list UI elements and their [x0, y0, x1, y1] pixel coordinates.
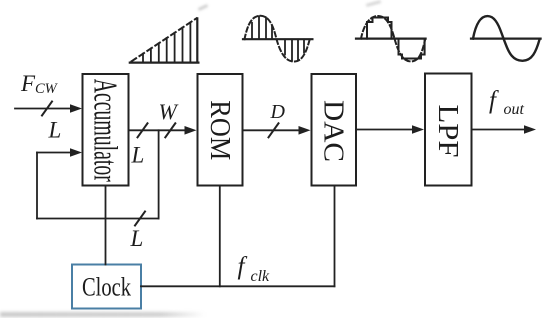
wire: feedback input arrow	[37, 152, 72, 154]
svg-text:L: L	[48, 118, 62, 143]
bus slash W on output	[165, 123, 175, 137]
wire: accumulator clock vertical	[105, 186, 107, 265]
wire: feedback bottom horizontal	[37, 218, 159, 220]
wire: feedback left vertical	[36, 153, 38, 219]
svg-text:D: D	[270, 101, 286, 123]
svg-text:f: f	[238, 253, 248, 280]
svg-text:DAC: DAC	[318, 100, 350, 162]
arrowhead into DAC	[299, 126, 311, 135]
waveform icon: hatched ramp (phase accumulator output)	[130, 18, 199, 62]
svg-text:Clock: Clock	[82, 273, 131, 302]
bottom page-shadow smudge	[0, 312, 205, 318]
arrowhead output f_out	[524, 125, 536, 134]
arrowhead into accumulator (F_CW)	[70, 104, 82, 113]
svg-text:clk: clk	[251, 268, 271, 285]
arrowhead into accumulator (feedback)	[70, 148, 82, 157]
svg-text:L: L	[131, 143, 145, 168]
bus slash on D line	[269, 123, 279, 137]
wire: feedback drop vertical	[158, 130, 160, 218]
wire: DAC clock vertical	[334, 186, 336, 287]
faint photo artifact top-left of ramp	[198, 4, 208, 11]
ROM box	[198, 74, 243, 186]
wire: F_CW input arrow	[15, 108, 72, 110]
svg-text:CW: CW	[35, 81, 59, 97]
bus slash L on output	[138, 123, 148, 137]
svg-text:f: f	[489, 87, 499, 114]
wire: accumulator output W bus	[129, 129, 188, 131]
faint photo artifact above stepped sine	[366, 0, 381, 7]
waveform icon: smooth sine (LPF output)	[471, 16, 541, 61]
arrowhead into ROM	[185, 126, 197, 135]
svg-text:ROM: ROM	[204, 100, 236, 160]
svg-text:W: W	[159, 99, 179, 124]
svg-text:Accumulator: Accumulator	[87, 79, 124, 182]
waveform icon: stepped sine (DAC output)	[356, 16, 426, 61]
svg-text:F: F	[20, 71, 36, 96]
bus slash on feedback	[135, 212, 145, 226]
wire: clock distribution horizontal	[141, 285, 335, 287]
clock box	[72, 265, 141, 309]
wire: DAC to LPF	[356, 129, 415, 131]
accumulator U1 box	[83, 74, 129, 186]
svg-text:L: L	[130, 226, 144, 251]
svg-text:LPF: LPF	[432, 105, 464, 158]
LPF box	[425, 74, 472, 186]
waveform icon: sampled sine (ROM output)	[243, 16, 312, 62]
DAC box	[312, 74, 357, 186]
wire: ROM to DAC D bus	[243, 129, 302, 131]
svg-text:out: out	[504, 101, 525, 118]
bus slash on F_CW input	[42, 102, 52, 116]
arrowhead into LPF	[412, 125, 424, 134]
wire: LPF output	[472, 129, 527, 131]
wire: ROM clock vertical	[219, 186, 221, 287]
